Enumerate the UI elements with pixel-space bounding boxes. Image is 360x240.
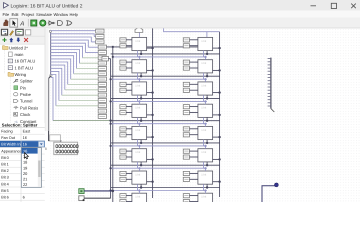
wire top feed col2 xyxy=(164,28,220,38)
tunnel L601 xyxy=(120,177,126,181)
svg-text:Probe: Probe xyxy=(20,92,32,97)
wire carry 61 xyxy=(213,181,221,183)
wire bottom navy 50 xyxy=(140,162,142,167)
pin partial xyxy=(50,135,61,141)
wire row bus 2 lavender xyxy=(110,100,207,102)
wire row bus 1 dark xyxy=(111,75,220,77)
tunnel TA1 xyxy=(96,34,104,38)
wire row bus 3 lavender xyxy=(110,123,207,125)
svg-text:1 bit: 1 bit xyxy=(201,129,206,132)
wire row bus 0 dark xyxy=(111,53,220,55)
svg-text:1 bit: 1 bit xyxy=(135,196,140,199)
wire carry 41 xyxy=(213,136,221,138)
wire row bus 0 lavender xyxy=(112,56,207,58)
tunnel L100 xyxy=(120,60,126,64)
tunnel L400 xyxy=(120,127,126,131)
op-amp U31 1-bit ALU block xyxy=(198,104,213,117)
wire bottom navy 51 xyxy=(206,162,208,167)
svg-text:Bit 4: Bit 4 xyxy=(1,182,9,186)
splitter SB (output comb) xyxy=(268,58,275,112)
wire bottom lav 41 xyxy=(203,140,205,146)
tunnel TA4 xyxy=(98,50,106,54)
wire bottom lav 00 xyxy=(137,51,139,57)
tunnel L500 xyxy=(120,149,126,153)
tunnel TA13 xyxy=(98,98,106,102)
op-amp U30 1-bit ALU block xyxy=(132,104,147,117)
wire bottom lav 60 xyxy=(137,184,139,190)
wire stub 501 xyxy=(126,156,132,158)
op-amp U70 1-bit ALU block xyxy=(132,193,147,206)
junction at v1 xyxy=(109,119,111,121)
tunnel L710 xyxy=(183,194,189,198)
wire topfeed 60 xyxy=(138,167,140,171)
wire A9 xyxy=(51,59,98,79)
op-amp U71 1-bit ALU block xyxy=(198,193,213,206)
wire stub 400 xyxy=(126,128,132,130)
svg-text:16 BIT ALU: 16 BIT ALU xyxy=(15,59,36,64)
op-amp U50 1-bit ALU block xyxy=(132,149,147,162)
wire stub 410 xyxy=(190,128,198,130)
tunnel L501 xyxy=(120,155,126,159)
wire B-row feed xyxy=(107,46,198,48)
tunnel L011 xyxy=(183,44,189,48)
svg-text:6: 6 xyxy=(23,196,25,200)
wire carry chain col2 xyxy=(219,32,221,197)
tunnel L700 xyxy=(120,194,126,198)
wire row bus 6 lavender xyxy=(110,189,207,191)
wire v2 xyxy=(112,46,114,202)
wire bottom navy 30 xyxy=(140,117,142,122)
svg-text:1 bit: 1 bit xyxy=(135,84,140,87)
wire A4 xyxy=(51,43,98,52)
svg-text:Logisim: 16 BIT ALU of Untitle: Logisim: 16 BIT ALU of Untitled 2 xyxy=(11,3,83,9)
wire carry 00 xyxy=(147,47,154,49)
wire stub 711 xyxy=(190,201,198,203)
svg-text:A: A xyxy=(19,21,24,28)
tunnel L701 xyxy=(120,200,126,204)
wire stub 311 xyxy=(190,112,198,114)
svg-text:1 bit: 1 bit xyxy=(135,62,140,65)
svg-text:16: 16 xyxy=(23,143,27,147)
svg-text:1 bit: 1 bit xyxy=(201,107,206,110)
tunnel L000 xyxy=(120,38,126,42)
svg-text:Pin: Pin xyxy=(20,85,27,90)
svg-text:Bit 3: Bit 3 xyxy=(1,176,9,180)
wire topfeed 61 xyxy=(204,167,206,171)
wire carry 01 xyxy=(213,47,221,49)
svg-text:Splitter: Splitter xyxy=(20,79,33,84)
wire stub 300 xyxy=(126,106,132,108)
tunnel L611 xyxy=(183,177,189,181)
wire from Cin xyxy=(84,190,114,193)
wire bottom navy 00 xyxy=(140,51,142,56)
wire stub 500 xyxy=(126,150,132,152)
wire stub 700 xyxy=(126,195,132,197)
svg-text:1 bit: 1 bit xyxy=(135,173,140,176)
svg-text:main: main xyxy=(15,52,25,57)
tunnel L300 xyxy=(120,105,126,109)
wire topfeed 20 xyxy=(138,78,140,82)
svg-text:22: 22 xyxy=(23,182,27,187)
wire A5 xyxy=(51,46,98,58)
wire stub 710 xyxy=(190,195,198,197)
svg-text:Bit 1: Bit 1 xyxy=(1,163,9,167)
wire A8 xyxy=(51,56,98,74)
op-amp U21 1-bit ALU block xyxy=(198,82,213,95)
svg-text:Bit 6: Bit 6 xyxy=(1,196,9,200)
wire bottom lav 11 xyxy=(203,73,205,79)
tunnel L411 xyxy=(183,133,189,137)
wire A6 xyxy=(51,50,98,64)
wire bottom navy 01 xyxy=(206,51,208,56)
tunnel L010 xyxy=(183,38,189,42)
wire bottom-right xyxy=(262,186,275,202)
wire topfeed 11 xyxy=(204,56,206,60)
svg-text:19: 19 xyxy=(23,165,27,170)
wire stub 301 xyxy=(126,112,132,114)
wire from mode pin xyxy=(84,197,111,199)
tunnel TA16 xyxy=(98,114,106,118)
tunnel TA8 xyxy=(98,72,106,76)
wire bottom lav 61 xyxy=(203,184,205,190)
wire carry 70 xyxy=(147,203,154,205)
wire stub 411 xyxy=(190,134,198,136)
wire topfeed 50 xyxy=(138,145,140,149)
tunnel L200 xyxy=(120,82,126,86)
wire row bus 3 dark xyxy=(111,120,220,122)
op-amp U20 1-bit ALU block xyxy=(132,82,147,95)
wire topfeed 51 xyxy=(204,145,206,149)
wire A15 xyxy=(51,78,111,121)
svg-text:Bit 0: Bit 0 xyxy=(1,156,9,160)
wire topfeed 21 xyxy=(204,78,206,82)
wire bottom lav 10 xyxy=(137,73,139,79)
wire stub 601 xyxy=(126,178,132,180)
tunnel TA5 xyxy=(98,56,106,60)
svg-text:Appearance: Appearance xyxy=(1,149,21,153)
tunnel L310 xyxy=(183,105,189,109)
tunnel L711 xyxy=(183,200,189,204)
wire bottom lav 40 xyxy=(137,140,139,146)
op-amp U11 1-bit ALU block xyxy=(198,60,213,73)
svg-text:Edit: Edit xyxy=(12,12,20,17)
wire carry 20 xyxy=(147,91,154,93)
wire bottom navy 20 xyxy=(140,95,142,100)
tunnel L401 xyxy=(120,133,126,137)
pin mode (white input) xyxy=(79,196,85,201)
svg-text:Bit 2: Bit 2 xyxy=(1,169,9,173)
svg-text:21: 21 xyxy=(23,177,27,182)
wire carry 50 xyxy=(147,158,154,160)
op-amp U60 1-bit ALU block xyxy=(132,171,147,184)
tunnel L410 xyxy=(183,127,189,131)
wire stub 611 xyxy=(190,178,198,180)
wire A0 xyxy=(51,30,97,32)
wire stub 000 xyxy=(126,39,132,41)
wire bottom navy 31 xyxy=(206,117,208,122)
wire stub 401 xyxy=(126,134,132,136)
wire stub 111 xyxy=(190,67,198,69)
wire bottom navy 61 xyxy=(206,184,208,189)
wire A7 xyxy=(51,53,98,69)
tunnel L210 xyxy=(183,82,189,86)
wire row bus 1 lavender xyxy=(110,78,207,80)
wire carry 71 xyxy=(213,203,221,205)
wire bottom lav 51 xyxy=(203,162,205,168)
svg-text:1 bit: 1 bit xyxy=(135,40,140,43)
wire bottom lav 50 xyxy=(137,162,139,168)
pin B (16-bit input) xyxy=(45,142,78,154)
svg-text:Fan Out: Fan Out xyxy=(1,136,16,140)
tunnel L610 xyxy=(183,171,189,175)
wire bottom navy 70 xyxy=(140,202,142,206)
svg-text:Simulate: Simulate xyxy=(36,12,53,17)
tunnel L111 xyxy=(183,66,189,70)
wire stub 011 xyxy=(190,45,198,47)
wire topfeed 41 xyxy=(204,123,206,127)
svg-text:18: 18 xyxy=(23,160,27,165)
op-amp U01 1-bit ALU block xyxy=(198,37,213,50)
svg-text:Bit Width In: Bit Width In xyxy=(1,143,20,147)
svg-text:16: 16 xyxy=(23,149,27,154)
wire carry 60 xyxy=(147,181,154,183)
svg-text:File: File xyxy=(3,12,10,17)
wire stub 110 xyxy=(190,61,198,63)
wire stub 310 xyxy=(190,106,198,108)
wire A2 xyxy=(51,37,96,42)
wire carry 31 xyxy=(213,114,221,116)
wire topfeed 40 xyxy=(138,123,140,127)
wire bottom navy 60 xyxy=(140,184,142,189)
svg-text:Project: Project xyxy=(22,12,36,17)
svg-text:Tunnel: Tunnel xyxy=(20,99,32,104)
tunnel TA12 xyxy=(98,93,106,97)
wire A14 xyxy=(51,75,98,106)
wire topfeed 70 xyxy=(138,189,140,193)
tunnel L510 xyxy=(183,149,189,153)
wire A11 xyxy=(51,65,98,90)
tunnel L600 xyxy=(120,171,126,175)
tunnel L001 xyxy=(120,44,126,48)
op-amp U00 1-bit ALU block xyxy=(132,37,147,50)
tunnel L511 xyxy=(183,155,189,159)
wire stub 201 xyxy=(126,89,132,91)
svg-text:1 bit: 1 bit xyxy=(201,196,206,199)
tunnel TA9 xyxy=(98,77,106,81)
tunnel TA6 xyxy=(98,61,106,65)
node out dot xyxy=(274,183,278,187)
wire topfeed 31 xyxy=(204,100,206,104)
svg-text:16: 16 xyxy=(23,136,27,140)
wire row bus 6 dark xyxy=(111,187,220,189)
wire stub 701 xyxy=(126,201,132,203)
svg-text:Pull Resis: Pull Resis xyxy=(20,105,38,110)
svg-text:1 bit: 1 bit xyxy=(201,173,206,176)
wire bottom navy 10 xyxy=(140,73,142,78)
wire row bus 4 lavender xyxy=(110,145,207,147)
wire bottom lav 01 xyxy=(203,51,205,57)
wire carry 21 xyxy=(213,91,221,93)
tunnel L101 xyxy=(120,66,126,70)
splitter SA trunk xyxy=(49,30,52,76)
tunnel TA0 xyxy=(96,29,104,33)
svg-text:1 bit: 1 bit xyxy=(135,107,140,110)
wire carry 10 xyxy=(147,69,154,71)
svg-text:1 bit: 1 bit xyxy=(201,84,206,87)
svg-text:1 bit: 1 bit xyxy=(201,40,206,43)
svg-text:Facing: Facing xyxy=(1,130,12,134)
wire bottom navy 71 xyxy=(206,202,208,206)
tunnel feed v1 xyxy=(102,56,111,61)
wire bottom lav 70 xyxy=(137,202,139,206)
op-amp U61 1-bit ALU block xyxy=(198,171,213,184)
wire bottom lav 21 xyxy=(203,95,205,101)
op-amp U41 1-bit ALU block xyxy=(198,126,213,139)
wire bottom lav 71 xyxy=(203,202,205,206)
wire carry 11 xyxy=(213,69,221,71)
svg-text:1 bit: 1 bit xyxy=(135,129,140,132)
wire row bus 4 dark xyxy=(111,142,220,144)
wire bottom lav 30 xyxy=(137,117,139,123)
svg-text:Wiring: Wiring xyxy=(15,72,27,77)
svg-text:Help: Help xyxy=(70,12,79,17)
wire carry 51 xyxy=(213,158,221,160)
wire A13 xyxy=(51,71,98,100)
svg-text:Untitled 2*: Untitled 2* xyxy=(9,45,28,50)
wire bottom lav 20 xyxy=(137,95,139,101)
wire carry chain col1 xyxy=(152,28,154,198)
svg-text:1 bit: 1 bit xyxy=(201,62,206,65)
op-amp U40 1-bit ALU block xyxy=(132,126,147,139)
wire topfeed 30 xyxy=(138,100,140,104)
tunnel TA14 xyxy=(98,104,106,108)
tunnel TA3 xyxy=(98,45,106,49)
wire topfeed 71 xyxy=(204,189,206,193)
op-amp U51 1-bit ALU block xyxy=(198,149,213,162)
wire topfeed 10 xyxy=(138,56,140,60)
svg-text:1 bit: 1 bit xyxy=(135,151,140,154)
tunnel top col1 xyxy=(135,27,143,37)
svg-text:Bit 5: Bit 5 xyxy=(1,189,9,193)
wire stub 600 xyxy=(126,172,132,174)
tunnel TA7 xyxy=(98,66,106,70)
svg-text:East: East xyxy=(23,130,32,134)
wire row bus 5 dark xyxy=(111,164,220,166)
wire row bus 5 lavender xyxy=(110,167,207,169)
wire stub 211 xyxy=(190,89,198,91)
svg-text:1 bit: 1 bit xyxy=(201,151,206,154)
tunnel L301 xyxy=(120,111,126,115)
wire stub 001 xyxy=(126,45,132,47)
wire A12 xyxy=(51,68,98,95)
wire stub 510 xyxy=(190,150,198,152)
wire bus B xyxy=(49,76,61,143)
wire A10 xyxy=(51,62,98,85)
wire A1 xyxy=(51,34,96,37)
wire bottom lav 31 xyxy=(203,117,205,123)
wire stub 200 xyxy=(126,83,132,85)
svg-text:Clock: Clock xyxy=(20,112,31,117)
wire stub 610 xyxy=(190,172,198,174)
tunnel TA2 xyxy=(96,40,104,44)
wire carry 30 xyxy=(147,114,154,116)
tunnel L211 xyxy=(183,88,189,92)
wire stub 210 xyxy=(190,83,198,85)
wire bottom navy 41 xyxy=(206,140,208,144)
tunnel TA11 xyxy=(98,88,106,92)
tunnel L311 xyxy=(183,111,189,115)
wire A3 xyxy=(51,40,98,47)
pin Cin (green input) xyxy=(79,189,84,194)
wire carry 40 xyxy=(147,136,154,138)
wire row bus 2 dark xyxy=(111,97,220,99)
wire stub 010 xyxy=(190,39,198,41)
tunnel L110 xyxy=(183,60,189,64)
wire stub 101 xyxy=(126,67,132,69)
tunnel TA10 xyxy=(98,82,106,86)
wire bottom navy 40 xyxy=(140,140,142,144)
wire stub 100 xyxy=(126,61,132,63)
wire bottom navy 11 xyxy=(206,73,208,78)
op-amp U10 1-bit ALU block xyxy=(132,60,147,73)
wire stub 511 xyxy=(190,156,198,158)
svg-text:Selection: Splitter: Selection: Splitter xyxy=(2,123,38,128)
tunnel L201 xyxy=(120,88,126,92)
svg-text:Window: Window xyxy=(54,12,69,17)
svg-text:1 BIT ALU: 1 BIT ALU xyxy=(15,65,34,70)
wire v1 xyxy=(110,59,112,199)
tunnel TA15 xyxy=(98,109,106,113)
wire bottom navy 21 xyxy=(206,95,208,100)
